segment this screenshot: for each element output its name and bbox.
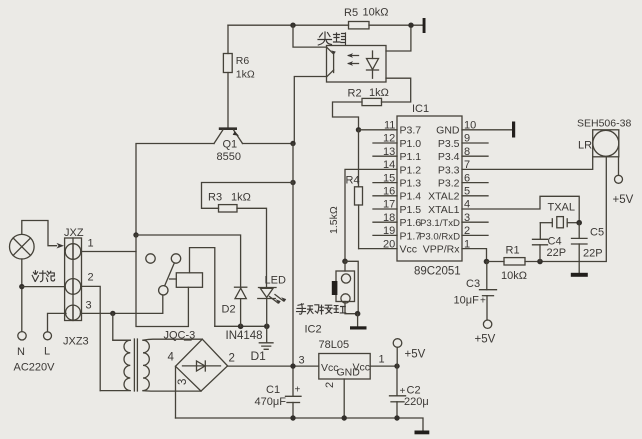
terminal +5V (under C3)	[475, 320, 496, 346]
svg-text:P1.2: P1.2	[400, 164, 422, 176]
node junction lamp/JXZ2	[19, 284, 24, 289]
terminal +5V (above C2)	[393, 339, 425, 366]
svg-text:16: 16	[383, 186, 395, 198]
ground (bottom right bar)	[415, 431, 430, 435]
button label (CJK niu)	[334, 306, 346, 313]
wire: pin 20 stub from R4	[359, 248, 397, 250]
svg-text:Vcc: Vcc	[400, 244, 418, 256]
svg-text:4: 4	[168, 352, 175, 364]
svg-text:11: 11	[384, 120, 395, 132]
transformer core	[134, 339, 137, 391]
svg-text:+: +	[480, 296, 486, 307]
svg-text:5: 5	[464, 186, 470, 198]
svg-text:N: N	[17, 346, 25, 358]
wire: coil top to D2/LED return	[190, 248, 215, 327]
svg-text:17: 17	[383, 199, 395, 211]
relay switch arm	[165, 263, 175, 286]
wire: node down to transformer primary top	[113, 313, 131, 340]
svg-text:470μF: 470μF	[255, 396, 287, 408]
wire: relay branch down / coil return	[136, 235, 188, 327]
wire: JXZ3 to relay contact	[81, 295, 163, 313]
svg-text:SEH506-38: SEH506-38	[577, 118, 631, 130]
wire: R2 to P3.7 pin-11 node	[333, 102, 363, 130]
svg-text:10kΩ: 10kΩ	[363, 7, 389, 19]
node junction P3.7 (R2/R4/pin11)	[356, 127, 361, 132]
wire: bridge plus to 78L05 input	[228, 365, 319, 367]
svg-text:P1.4: P1.4	[400, 191, 422, 203]
svg-text:Q1: Q1	[223, 139, 238, 151]
relay JQC-3 contact 1	[146, 254, 155, 263]
svg-text:LED: LED	[265, 275, 286, 287]
svg-text:14: 14	[383, 159, 395, 171]
wire: opto emitter down to Q1 collector node	[294, 77, 326, 144]
wire: pin 15 stub	[373, 182, 397, 184]
wire: secondary top to bridge	[143, 339, 202, 340]
wire: LR right pin to +5V	[618, 157, 620, 175]
node junction top-left (R6/R5/opto)	[290, 23, 295, 28]
node junction rail/78L05 gnd	[342, 415, 347, 420]
svg-text:13: 13	[383, 146, 395, 158]
opto light arrows	[347, 53, 359, 66]
svg-text:LR: LR	[578, 140, 592, 152]
svg-text:2: 2	[88, 272, 94, 284]
svg-text:1: 1	[379, 354, 385, 366]
svg-text:6: 6	[464, 172, 470, 184]
wire: L terminal to JXZ terminal 3	[48, 313, 67, 331]
svg-text:IC2: IC2	[305, 324, 322, 336]
svg-text:P3.4: P3.4	[438, 151, 460, 163]
node junction JXZ3/transformer primary top	[110, 311, 115, 316]
svg-text:D1: D1	[251, 349, 267, 363]
svg-text:3: 3	[464, 212, 470, 224]
wire: pin 10 GND stub	[462, 129, 512, 131]
relay arm link	[170, 278, 177, 280]
svg-text:GND: GND	[436, 125, 460, 137]
svg-text:XTAL2: XTAL2	[428, 191, 459, 203]
node junction R1/C4	[537, 259, 543, 265]
svg-text:L: L	[44, 346, 50, 358]
svg-text:7: 7	[464, 159, 470, 171]
wire: pin 7 P3.3 to IR receiver	[462, 157, 593, 170]
wire: opto transistor collector from top-left node	[293, 25, 327, 47]
transformer T1 primary winding	[100, 340, 130, 390]
label JQC-3	[164, 330, 196, 342]
node junction pin1/R1/C3	[484, 259, 490, 265]
node junction button bottom	[355, 311, 361, 317]
wire: pin 6 stub	[462, 182, 488, 184]
wire: Q1 emitter to relay branch	[136, 144, 214, 236]
terminal T-bar top right	[423, 18, 426, 33]
svg-text:2: 2	[464, 225, 470, 237]
wire: top rail from R6 to terminal	[228, 24, 423, 26]
svg-text:C3: C3	[466, 278, 480, 290]
wire: 78L05 output to +5V node	[370, 365, 397, 367]
wire: pin 8 stub	[462, 155, 488, 157]
svg-text:R4: R4	[346, 175, 360, 187]
wire: lamp bottom to N terminal	[21, 259, 23, 332]
svg-text:3: 3	[299, 355, 305, 367]
svg-text:8550: 8550	[217, 151, 241, 163]
svg-text:C5: C5	[590, 227, 604, 239]
svg-text:C1: C1	[266, 384, 280, 396]
wire: button bottom lead	[345, 302, 358, 314]
relay coil	[176, 273, 202, 288]
svg-text:3: 3	[177, 379, 189, 385]
wire: opto LED anode to top-right node	[386, 28, 411, 51]
svg-text:22P: 22P	[547, 247, 567, 259]
svg-text:P3.5: P3.5	[438, 138, 460, 150]
wire: crystal left to C4	[539, 223, 541, 240]
svg-text:R1: R1	[506, 245, 520, 257]
wire: button bypass right side	[345, 261, 358, 313]
ground (under button)	[350, 314, 367, 330]
wire: pin 2 stub	[462, 234, 488, 236]
svg-text:IC1: IC1	[412, 103, 429, 115]
svg-text:+5V: +5V	[405, 349, 426, 361]
svg-text:15: 15	[383, 172, 395, 184]
svg-text:P3.2: P3.2	[438, 178, 460, 190]
svg-text:8: 8	[464, 146, 470, 158]
button label (CJK shou)	[297, 304, 306, 314]
diode D2 IN4148	[222, 287, 263, 342]
wire: Q1 collector to bus	[243, 143, 294, 145]
svg-text:D2: D2	[222, 304, 236, 316]
terminal T-bar pin10	[512, 122, 515, 138]
transistor Q1 8550	[214, 127, 243, 163]
bridge rectifier D1 (JQC-3 diamond)	[168, 339, 235, 391]
svg-text:P3.1/TxD: P3.1/TxD	[420, 218, 460, 229]
svg-text:20: 20	[383, 238, 395, 250]
svg-text:VPP/Rx: VPP/Rx	[423, 244, 461, 256]
svg-text:10kΩ: 10kΩ	[501, 270, 527, 282]
wire: pin 9 stub	[462, 142, 488, 144]
connector JXZ strip	[65, 238, 82, 321]
wire: lamp node to JXZ terminal 2	[22, 286, 65, 288]
svg-text:1kΩ: 1kΩ	[231, 192, 251, 204]
svg-text:AC220V: AC220V	[14, 362, 56, 374]
ground (under C5 bar)	[571, 273, 588, 277]
wire: pin 14 stub to push button	[345, 169, 397, 258]
node junction LED cathode	[264, 324, 270, 330]
wire: pin 13 stub	[373, 155, 397, 157]
svg-text:P1.3: P1.3	[400, 178, 422, 190]
lamp label (CJK deng)	[32, 271, 46, 282]
svg-text:P3.7: P3.7	[400, 125, 422, 137]
svg-text:3: 3	[86, 300, 92, 312]
svg-text:22P: 22P	[583, 248, 603, 260]
svg-text:+: +	[295, 385, 301, 396]
op-amp U IC1 89C2051 body	[397, 103, 462, 278]
wire: bus vertical (opto emitter to bottom rail)	[292, 144, 294, 419]
svg-text:1kΩ: 1kΩ	[236, 69, 255, 81]
opto LED diode	[367, 51, 379, 78]
terminal N	[17, 332, 26, 358]
terminal L	[44, 332, 52, 358]
svg-text:+5V: +5V	[475, 334, 496, 346]
capacitor C5 22P	[572, 223, 605, 273]
lamp label (CJK pao)	[47, 271, 55, 281]
wire: JXZ2 to transformer primary bottom	[81, 286, 100, 390]
wire: R1 rail pin1 to LR sensor	[487, 157, 607, 262]
svg-text:4: 4	[464, 199, 470, 211]
svg-text:2: 2	[324, 382, 336, 388]
svg-text:R6: R6	[236, 55, 250, 67]
voltage regulator IC2 78L05	[319, 339, 371, 379]
svg-text:P1.1: P1.1	[400, 151, 422, 163]
svg-text:P3.0/RxD: P3.0/RxD	[419, 231, 460, 242]
node junction bridge output / C1 / bus	[290, 363, 295, 368]
svg-text:9: 9	[464, 133, 470, 145]
IC1 left pin labels	[400, 125, 422, 256]
wire: pin 3 stub	[462, 221, 488, 223]
capacitor C4 22P	[533, 236, 567, 262]
svg-text:R2: R2	[348, 88, 362, 100]
svg-text:P3.3: P3.3	[438, 164, 460, 176]
svg-text:JXZ: JXZ	[64, 227, 84, 239]
node junction rail/C2	[394, 415, 399, 420]
svg-text:12: 12	[383, 133, 395, 145]
svg-text:JXZ3: JXZ3	[63, 336, 89, 348]
svg-text:2: 2	[229, 353, 235, 365]
node junction R3/bus	[290, 180, 295, 185]
resistor R1	[501, 245, 527, 283]
transformer secondary winding	[143, 340, 149, 390]
wire: bridge minus to bottom rail	[175, 366, 177, 418]
optocoupler label (CJK ou)	[334, 33, 346, 45]
wire: bottom ground rail	[176, 418, 424, 431]
push button (manual)	[332, 261, 355, 303]
wire: 78L05 GND pin down to rail	[343, 379, 345, 418]
crystal TXAL	[540, 202, 579, 228]
node junction 78L05 out / +5V / C2	[394, 363, 399, 368]
wire: +5V node down through C2 to rail	[396, 366, 398, 418]
svg-text:TXAL: TXAL	[548, 202, 576, 214]
wire: pin 5 XTAL2 stub	[462, 195, 488, 197]
node junction Q1/bus	[290, 141, 295, 146]
relay contact 2	[171, 254, 180, 263]
svg-text:P1.0: P1.0	[400, 138, 422, 150]
svg-text:89C2051: 89C2051	[414, 266, 461, 278]
svg-text:10μF: 10μF	[454, 295, 480, 307]
wire: opto LED cathode to R2	[382, 78, 411, 102]
svg-text:XTAL1: XTAL1	[428, 204, 459, 216]
lamp (circle with X)	[9, 234, 34, 259]
resistor R3	[202, 183, 294, 288]
svg-text:C4: C4	[548, 236, 562, 248]
wire: lamp top to JXZ terminal 1 with arrow	[22, 221, 64, 249]
resistor R2	[348, 87, 389, 106]
svg-text:C2: C2	[407, 385, 421, 397]
button label (CJK dong)	[308, 305, 319, 314]
capacitor C1 470uF	[255, 384, 302, 408]
wire: D2/LED bottom rail	[215, 325, 267, 327]
IC1 right pin labels	[419, 125, 460, 256]
node junction button top (P1.2)	[342, 259, 348, 265]
optocoupler U (guang ou) box	[327, 46, 387, 83]
wire: pin 18 stub	[373, 221, 397, 223]
svg-text:1: 1	[464, 238, 470, 250]
svg-text:19: 19	[383, 225, 395, 237]
relay contact 3	[159, 286, 168, 295]
node junction crystal/C5	[576, 220, 582, 226]
svg-text:18: 18	[383, 212, 395, 224]
capacitor C2 220u	[390, 385, 429, 409]
wire: pin 17 stub	[373, 208, 397, 210]
LED indicator	[258, 275, 286, 327]
node junction rail/C1	[290, 415, 295, 420]
terminal +5V (right)	[613, 175, 634, 206]
svg-text:+5V: +5V	[613, 194, 634, 206]
wire: secondary bottom to bridge	[143, 390, 201, 393]
svg-text:1: 1	[88, 238, 94, 250]
svg-text:R3: R3	[208, 192, 222, 204]
button label (CJK an)	[320, 305, 332, 314]
wire: pin 19 stub	[373, 234, 397, 236]
wire: pin 4 XTAL1 to crystal	[462, 196, 579, 222]
wire: pin 1 to R1/C3 node	[462, 249, 487, 262]
optocoupler label (CJK guang)	[318, 32, 332, 45]
svg-text:IN4148: IN4148	[226, 330, 263, 342]
resistor R6	[223, 25, 254, 127]
wire: relay branch node to D2 cathode	[136, 235, 241, 287]
node junction D2 anode	[238, 324, 244, 330]
opto phototransistor	[327, 47, 336, 76]
node junction relay branch (Q1 wire / D2 / coil)	[133, 232, 138, 237]
svg-text:78L05: 78L05	[319, 339, 350, 351]
capacitor C3 10uF	[454, 262, 497, 321]
svg-text:Vcc: Vcc	[353, 362, 371, 374]
resistor R4	[328, 130, 363, 249]
svg-text:P1.5: P1.5	[400, 204, 422, 216]
wire: JXZ1 to relay branch	[81, 251, 136, 253]
svg-text:R5: R5	[344, 7, 358, 19]
svg-text:220μ: 220μ	[404, 396, 429, 408]
svg-text:1kΩ: 1kΩ	[369, 87, 389, 99]
wire: pin 12 stub	[373, 142, 397, 144]
IR receiver LR SEH506-38	[577, 118, 631, 157]
svg-text:P1.6: P1.6	[400, 217, 422, 229]
wire: pin 16 stub	[373, 195, 397, 197]
ground (under LED)	[259, 326, 273, 349]
svg-text:10: 10	[464, 120, 476, 132]
resistor R5	[344, 7, 388, 29]
node junction top-right (R5/opto LED)	[408, 23, 413, 28]
svg-text:1.5kΩ: 1.5kΩ	[328, 206, 340, 234]
wire: pin 11 stub	[359, 129, 398, 131]
